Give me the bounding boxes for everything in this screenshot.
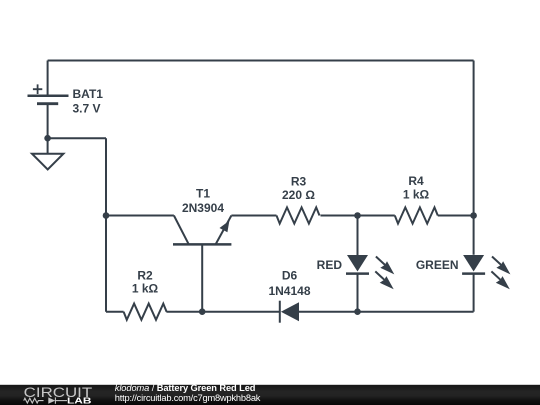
svg-text:RED: RED bbox=[317, 258, 343, 272]
wire red LED cathode down bbox=[357, 274, 359, 312]
LED RED bbox=[317, 255, 395, 289]
wire node to red LED anode bbox=[357, 216, 359, 256]
node collector branch junction bbox=[103, 212, 110, 219]
transistor T1 2N3904 bbox=[173, 186, 231, 311]
wire left branch vertical bbox=[105, 138, 107, 312]
wire ground stub bbox=[47, 138, 49, 154]
svg-text:1 kΩ: 1 kΩ bbox=[132, 282, 159, 296]
svg-text:R2: R2 bbox=[137, 269, 153, 283]
wire right rail vertical down to green LED anode bbox=[473, 61, 475, 255]
node R4 right rail junction bbox=[470, 212, 477, 219]
resistor R2 1 kOhm bbox=[124, 269, 167, 320]
CircuitLab logo bbox=[24, 385, 93, 405]
wire bottom left to R2 bbox=[106, 311, 124, 313]
svg-text:LAB: LAB bbox=[67, 395, 91, 405]
wire ground node to base branch bbox=[48, 137, 106, 139]
ground bbox=[32, 154, 63, 170]
wire bottom right bbox=[358, 311, 474, 313]
wire D6 to red node bbox=[299, 311, 358, 313]
wire emitter to R3 bbox=[231, 215, 276, 217]
wire collector branch horizontal bbox=[106, 215, 174, 217]
resistor R4 1 kOhm bbox=[395, 174, 438, 223]
wire battery negative down to ground node bbox=[47, 104, 49, 139]
diode D6 1N4148 bbox=[268, 269, 310, 323]
svg-text:R4: R4 bbox=[408, 174, 424, 188]
node R3/R4 red LED junction bbox=[354, 212, 361, 219]
node red LED bottom junction bbox=[354, 308, 361, 315]
svg-text:GREEN: GREEN bbox=[416, 258, 459, 272]
svg-text:2N3904: 2N3904 bbox=[182, 201, 224, 215]
svg-text:http://circuitlab.com/c7gm8wpk: http://circuitlab.com/c7gm8wpkhb8ak bbox=[115, 393, 261, 403]
wire battery positive up to top rail bbox=[47, 61, 49, 96]
resistor R3 220 Ohm bbox=[277, 175, 320, 224]
svg-text:BAT1: BAT1 bbox=[73, 87, 104, 101]
wire R2 to D6 bbox=[166, 311, 279, 313]
node base bottom junction bbox=[199, 308, 206, 315]
battery BAT1 3.7 V bbox=[28, 84, 104, 115]
wire green LED cathode down bbox=[473, 274, 475, 312]
node battery negative junction bbox=[44, 135, 51, 142]
LED GREEN bbox=[416, 255, 511, 289]
svg-text:220 Ω: 220 Ω bbox=[282, 188, 315, 202]
footer credit text bbox=[115, 383, 261, 403]
svg-text:1 kΩ: 1 kΩ bbox=[403, 188, 430, 202]
footer bar bbox=[0, 385, 540, 405]
svg-text:klodoma / Battery Green Red Le: klodoma / Battery Green Red Led bbox=[115, 383, 256, 393]
svg-text:1N4148: 1N4148 bbox=[268, 284, 310, 298]
wire top rail horizontal bbox=[48, 60, 474, 62]
svg-text:3.7 V: 3.7 V bbox=[73, 102, 101, 116]
wire R4 to right rail bbox=[438, 215, 474, 217]
svg-text:D6: D6 bbox=[282, 269, 298, 283]
wire R3 to R4 bbox=[321, 215, 395, 217]
svg-text:T1: T1 bbox=[196, 186, 210, 200]
svg-text:R3: R3 bbox=[291, 175, 307, 189]
